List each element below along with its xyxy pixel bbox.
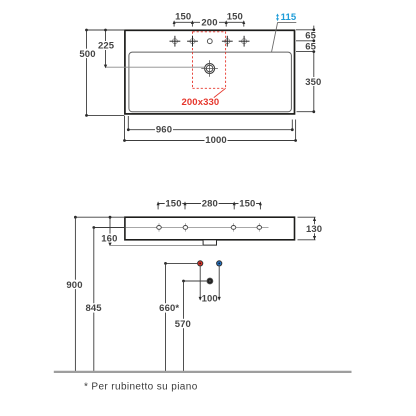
svg-text:150: 150 bbox=[175, 11, 191, 22]
front mid line bbox=[126, 226, 269, 228]
svg-text:350: 350 bbox=[305, 77, 321, 88]
fixing hole 1 bbox=[157, 223, 162, 231]
inner bowl outline bbox=[129, 52, 292, 112]
label 500 bbox=[79, 49, 96, 58]
svg-text:115: 115 bbox=[281, 12, 297, 23]
center hole circle bbox=[207, 39, 212, 44]
leader 660 top bbox=[166, 262, 198, 264]
line 570 bbox=[183, 281, 185, 371]
floor line bbox=[54, 371, 352, 373]
cold water dot (blue) bbox=[217, 261, 222, 266]
line 845 bbox=[93, 228, 95, 372]
svg-text:65: 65 bbox=[305, 31, 316, 42]
arrowheads 150/200/150 top bbox=[173, 20, 246, 24]
line 660 bbox=[165, 263, 167, 371]
svg-text:960: 960 bbox=[156, 124, 172, 135]
dimension 65/65/350 right bbox=[296, 26, 315, 112]
label 65 (lower) bbox=[305, 42, 317, 50]
faucet hole cross 4 bbox=[239, 36, 250, 47]
dimension 500/225 left bbox=[87, 30, 125, 115]
leader 900 top bbox=[75, 216, 125, 218]
dimension 150/200/150 top bbox=[174, 21, 244, 26]
svg-text:65: 65 bbox=[305, 41, 316, 52]
svg-text:150: 150 bbox=[239, 199, 255, 210]
label 350 bbox=[305, 77, 323, 86]
dimension 130 right bbox=[298, 217, 316, 240]
leader 845 top bbox=[94, 227, 125, 229]
fixing hole 4 bbox=[257, 223, 262, 231]
outer basin outline bbox=[125, 30, 295, 114]
svg-text:200: 200 bbox=[201, 18, 217, 29]
225 leader line to drain bbox=[106, 66, 205, 68]
svg-text:500: 500 bbox=[79, 49, 95, 60]
blue updown arrow glyph bbox=[276, 14, 279, 22]
red dashed cutout rectangle 200x330 bbox=[193, 32, 226, 89]
label 225 bbox=[98, 41, 115, 50]
faucet hole cross 1 bbox=[170, 36, 181, 47]
svg-text:160: 160 bbox=[101, 234, 117, 245]
front outline bbox=[125, 217, 295, 240]
dots 500/225 bbox=[85, 29, 107, 117]
svg-text:280: 280 bbox=[202, 199, 218, 210]
svg-text:130: 130 bbox=[306, 224, 322, 235]
svg-text:570: 570 bbox=[175, 319, 191, 330]
hot water dot (red) bbox=[198, 261, 203, 266]
leader 160 to drain stub bbox=[110, 244, 203, 246]
dimension 100 bbox=[199, 267, 201, 300]
red leader line bbox=[214, 88, 226, 97]
dimension 150/280/150 front bbox=[158, 202, 260, 209]
blue 115 leader bbox=[272, 22, 278, 52]
dimension 1000 bbox=[125, 116, 296, 141]
svg-text:900: 900 bbox=[66, 280, 82, 291]
arrow 225 bottom bbox=[104, 65, 107, 69]
label 200 bbox=[201, 18, 219, 27]
dimension 960 bbox=[128, 116, 292, 130]
drain symbol bbox=[201, 60, 218, 76]
svg-text:200x330: 200x330 bbox=[182, 97, 220, 108]
svg-text:1000: 1000 bbox=[205, 135, 227, 146]
faucet hole cross 3 bbox=[222, 36, 233, 47]
leader 570 top bbox=[184, 280, 207, 282]
fixing hole 3 bbox=[231, 223, 236, 231]
line 900 bbox=[74, 217, 76, 371]
dots 65/65/350 bbox=[312, 28, 315, 113]
svg-text:150: 150 bbox=[227, 11, 243, 22]
faucet hole cross 2 bbox=[187, 36, 198, 47]
svg-text:660*: 660* bbox=[159, 303, 179, 314]
svg-text:225: 225 bbox=[98, 41, 115, 52]
svg-text:100: 100 bbox=[202, 294, 218, 305]
svg-text:150: 150 bbox=[165, 199, 181, 210]
label 65 (upper) bbox=[305, 31, 317, 39]
fixing hole 2 bbox=[183, 223, 188, 231]
arrowheads 150/280/150 front bbox=[157, 201, 262, 205]
drain stub bbox=[203, 240, 216, 245]
svg-text:* Per rubinetto su piano: * Per rubinetto su piano bbox=[84, 382, 198, 393]
dimension 160 bbox=[109, 217, 111, 245]
waste dot (black) bbox=[207, 278, 213, 284]
svg-text:845: 845 bbox=[85, 303, 102, 314]
